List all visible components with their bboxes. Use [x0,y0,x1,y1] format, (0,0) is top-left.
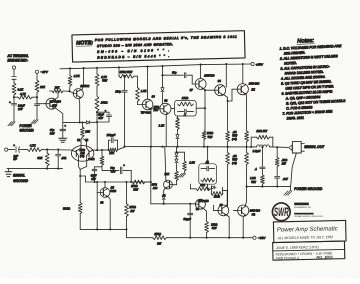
svg-text:63V: 63V [50,131,55,135]
svg-text:ZZ: ZZ [250,88,255,92]
svg-text:5400: 5400 [110,189,116,193]
svg-text:½W: ½W [208,135,213,139]
wire +55V top rail [60,64,251,69]
capacitor at -27V node [34,103,39,105]
svg-text:150Ω: 150Ω [131,184,138,188]
resistor 1.5K to ground [175,151,177,153]
svg-text:100Ω: 100Ω [211,222,217,226]
diode row node [63,121,86,123]
svg-text:(×4): (×4) [232,137,237,141]
resistor 68K [46,150,48,153]
wire Q9 emitter [203,208,206,221]
svg-text:PWB #150002 A: PWB #150002 A [276,256,300,260]
svg-text:F2: F2 [252,213,256,217]
wire Q7 emitter down [204,88,205,131]
svg-text:180Ω: 180Ω [101,100,108,104]
ground signal [8,169,10,172]
SWR logo [272,203,290,221]
svg-text:SIGNAL: SIGNAL [13,174,25,178]
resistor 12K [175,171,179,181]
capacitor 2.2uF 16V [11,103,16,105]
svg-text:−27V: −27V [41,70,49,74]
resistor .1 ohm x2 right [246,147,248,153]
resistor 10K [35,80,39,93]
svg-text:.1Ω: .1Ω [232,154,236,158]
capacitor 45uF 63V [96,111,98,113]
wire to input pair collectors [81,137,82,145]
resistor .1 ohm x2 left [227,147,229,153]
wire pair emitters to 820 [79,161,81,170]
svg-text:10K: 10K [200,183,205,187]
wire [42,149,72,151]
svg-text:12K: 12K [164,172,169,176]
svg-text:NO. 1003: NO. 1003 [316,255,333,259]
svg-text:(×2): (×2) [232,161,237,165]
svg-text:63V: 63V [91,178,96,181]
wire node row [86,181,151,183]
bias network box 110ohm / .1 [175,100,197,116]
svg-text:1µF: 1µF [13,154,18,158]
svg-text:4.7K: 4.7K [20,92,26,96]
svg-text:¼W: ¼W [212,226,217,230]
svg-text:SWR: SWR [274,207,289,219]
svg-text:1.5K: 1.5K [141,89,147,93]
wire output node rail [125,146,252,148]
resistor 2.7K half watt [96,67,98,69]
resistor 680ohm [101,150,103,156]
wire Q13 collector [55,91,58,99]
resistor 150ohm 1W vertical [126,182,128,204]
svg-text:820Ω: 820Ω [63,206,71,210]
wire [13,95,15,103]
resistor 10K vertical [81,122,83,127]
svg-text:680Ω: 680Ω [88,157,94,161]
title block box [272,220,346,260]
resistor 180 in bias box [201,178,215,182]
svg-text:27K: 27K [108,151,114,155]
wire Q14 collector to rail [242,63,244,65]
capacitor .01 [206,166,208,171]
zobel resistor 1.2ohm [261,169,263,175]
wire [13,105,15,122]
wire VAS base [151,108,160,110]
svg-text:47µ: 47µ [50,128,55,132]
resistor 4.7K horizontal [14,96,18,98]
resistor 22ohm 2W [250,137,252,147]
wire [96,86,98,96]
node 4.7K junction [13,96,15,98]
resistor 2.7K [69,67,71,69]
feedback capacitor 100uuF [108,140,110,150]
wire Q4 emitter [149,109,152,147]
logo company text [294,203,323,219]
terminal -27V [35,70,38,73]
wire VAS column [161,65,163,67]
svg-text:470Ω ½W: 470Ω ½W [120,70,133,74]
svg-text:63V: 63V [111,170,116,174]
svg-text:−55V: −55V [258,236,266,240]
svg-text:68K: 68K [37,156,42,160]
resistor 820ohm [78,203,82,214]
svg-text:2W: 2W [281,162,287,166]
svg-text:100µµF: 100µµF [107,134,116,137]
diode [162,75,164,87]
wire [13,69,15,75]
svg-text:39p: 39p [172,71,177,75]
capacitor 100pF [124,75,126,77]
svg-text:.001: .001 [61,156,67,160]
wire [19,149,27,151]
capacitor .001 [57,150,59,154]
inductor 2.2uH [251,146,256,148]
wire lower output rail to ground [247,186,291,188]
resistor 0.2K [12,83,16,95]
svg-text:1.1K: 1.1K [159,124,165,128]
svg-text:0.2K: 0.2K [18,88,24,92]
terminal -55V [253,236,256,239]
svg-text:SIGNAL OUT: SIGNAL OUT [304,145,325,149]
resistor .1 ohm x4 right [245,131,249,142]
ground power out [290,187,292,191]
wire [272,137,274,147]
svg-text:4.7K: 4.7K [30,143,36,147]
capacitor 39uuF [189,203,191,205]
svg-text:100Ω: 100Ω [214,196,220,199]
wire Q1 collector [78,99,81,123]
note box: models and serial numbers [72,31,245,62]
resistor 270ohm 1W [153,236,167,240]
ground [35,120,39,124]
svg-text:.1Ω: .1Ω [232,130,236,134]
wire [96,112,98,123]
diode [211,186,214,189]
wire [189,184,191,189]
wire [36,93,38,104]
resistor 10K protection [190,188,196,190]
ground [182,173,186,177]
wire [96,193,98,230]
wire Q8 base [172,184,176,186]
wire Q10 base [233,210,237,212]
resistor 470ohm half W [118,66,120,68]
resistor 100ohm parallel [211,192,223,196]
diode below 1.1K [177,130,179,135]
wire Q7 collector [200,64,202,66]
svg-text:+: + [9,100,11,104]
terminal AC input [12,66,15,69]
svg-text:GROUND: GROUND [13,179,28,183]
capacitor 47uF to feedback [101,165,103,167]
wire jack sleeve to ground [291,153,297,187]
wire Q10 collector down [242,216,244,238]
svg-text:BRIDGE REC-: BRIDGE REC- [8,58,29,62]
svg-text:16V: 16V [18,107,23,111]
wire to Q6 [222,189,227,191]
wire Q9 base [151,203,196,205]
wire to Q1 base [63,90,70,92]
resistor .1 ohm x4 left [226,131,230,142]
svg-text:10K: 10K [85,129,90,133]
svg-text:NOTED.: NOTED. [284,61,297,66]
svg-text:ENGINEERING, INC.: ENGINEERING, INC. [294,207,312,209]
wire Q6 emitter [226,215,229,238]
wire Q4b emitter [223,94,227,131]
wire Q8 emitter and diode [164,188,166,196]
wire VAS emitter [165,114,167,146]
svg-text:SYLMAR, CA 91342 • (818) 362: SYLMAR, CA 91342 • (818) 362-5252 [294,215,323,218]
diode chain from output rail [176,147,178,153]
resistor 100ohm half W [202,131,206,140]
svg-text:A06: A06 [152,187,158,190]
resistor 100ohm quarter W [205,222,209,233]
svg-text:18K: 18K [55,85,60,89]
svg-text:¼W: ¼W [133,188,138,192]
svg-text:270Ω: 270Ω [153,232,161,236]
svg-text:Power Amp Schematic: Power Amp Schematic [277,225,339,233]
svg-text:+55V: +55V [256,63,264,67]
svg-text:1.2Ω: 1.2Ω [250,176,256,180]
svg-text:150Ω: 150Ω [129,205,136,209]
resistor 1.5K [137,76,139,87]
svg-text:#7: #7 [190,88,194,92]
resistor 4.7K input [28,148,42,152]
wire Q4b collector to rail [225,63,227,65]
wire current source to feedback node [96,122,98,150]
wire Q3 emitter [108,196,111,229]
svg-text:1.5K: 1.5K [189,161,195,165]
wire signal ground rail [7,168,63,170]
svg-text:100p: 100p [115,90,121,94]
svg-text:POWER GROUND: POWER GROUND [294,187,323,191]
wire [36,73,38,80]
svg-text:22Ω 2W: 22Ω 2W [255,129,267,133]
wire bias box stem [207,146,209,148]
svg-text:GROUND: GROUND [20,128,35,132]
resistor 180ohm [95,96,99,112]
svg-text:110Ω: 110Ω [182,96,188,100]
transistor Q4 TIP31A [138,104,143,106]
capacitor .1 [184,109,186,114]
wire Q14 emitter [245,93,248,131]
capacitor .047 [276,167,278,176]
transistor Q7 2N5400 [192,83,195,85]
wire Q3 base [96,182,98,193]
svg-text:2.7K: 2.7K [73,74,80,78]
wire [36,105,38,119]
wire [8,149,15,151]
svg-text:2.2µH: 2.2µH [252,149,262,153]
svg-text:½W: ½W [251,180,256,184]
polarity marks [12,76,16,78]
svg-text:.22Ω: .22Ω [281,158,287,162]
terminal input [5,148,8,151]
wire Q6 collector [226,204,227,206]
svg-text:2N: 2N [110,185,114,189]
wire bias box to Q7 emitter line [196,107,205,109]
wire [13,79,15,83]
thermal bias box [199,164,217,184]
svg-text:NP: NP [13,157,17,161]
resistor 18K [52,89,63,93]
svg-text:1W: 1W [157,242,162,246]
ground bars [59,137,67,139]
svg-text:#4: #4 [218,79,222,83]
svg-text:(×2): (×2) [80,155,85,158]
svg-text:½W: ½W [102,78,107,82]
svg-text:½W: ½W [232,158,237,162]
svg-text:2SD424: 2SD424 [248,82,260,86]
svg-text:TIP 31A: TIP 31A [141,110,151,114]
svg-text:2N5962: 2N5962 [79,85,89,88]
terminal +55V [251,62,254,65]
resistor .22ohm 2W sense [276,146,278,148]
svg-text:1W: 1W [130,209,135,213]
svg-text:A06: A06 [153,109,159,112]
jack signal out [289,145,292,150]
svg-text:100Ω: 100Ω [207,131,213,135]
svg-text:45µF: 45µF [98,112,104,116]
wire Q4 collector to rail [147,66,149,68]
wire Q10 emitter up [245,201,246,207]
wire Q13 emitter [55,108,63,122]
svg-text:POWER: POWER [20,124,33,128]
resistor 110ohm [178,102,194,106]
wire base Q13 [36,97,38,104]
capacitor 39pF miller [163,74,184,76]
resistor 150ohm quarter W [132,180,145,184]
wire lower left rail [80,228,126,230]
svg-text:DWG. 1011: DWG. 1011 [287,116,305,121]
svg-text:2.7K: 2.7K [100,75,107,79]
feedback node wire [92,149,109,151]
ground power [12,122,16,126]
wire x150 down [150,147,152,182]
wire Q14 base [232,88,237,90]
wire Q1 emitter to rail [83,67,85,69]
svg-text:10K: 10K [40,85,45,89]
notes list [278,37,347,121]
svg-text:2N5400: 2N5400 [203,73,215,77]
svg-text:63V: 63V [98,116,103,120]
svg-text:½W: ½W [232,134,237,138]
svg-text:70µ: 70µ [110,166,115,170]
svg-text:.047: .047 [283,177,289,181]
capacitor 1uF NP input [15,147,17,153]
diode D1 [86,121,90,124]
feedback resistor 27K [109,148,118,152]
resistor 1.1K [176,117,178,119]
wire Q8 collector [165,147,166,181]
capacitor 70uF 63V [101,167,103,171]
wire -55V rail [166,237,252,239]
capacitor 47uF 63V [62,122,64,128]
wire Q3 collector [104,182,106,188]
zobel capacitor .1 [261,146,263,148]
wire corner to -55 rail [127,229,153,237]
